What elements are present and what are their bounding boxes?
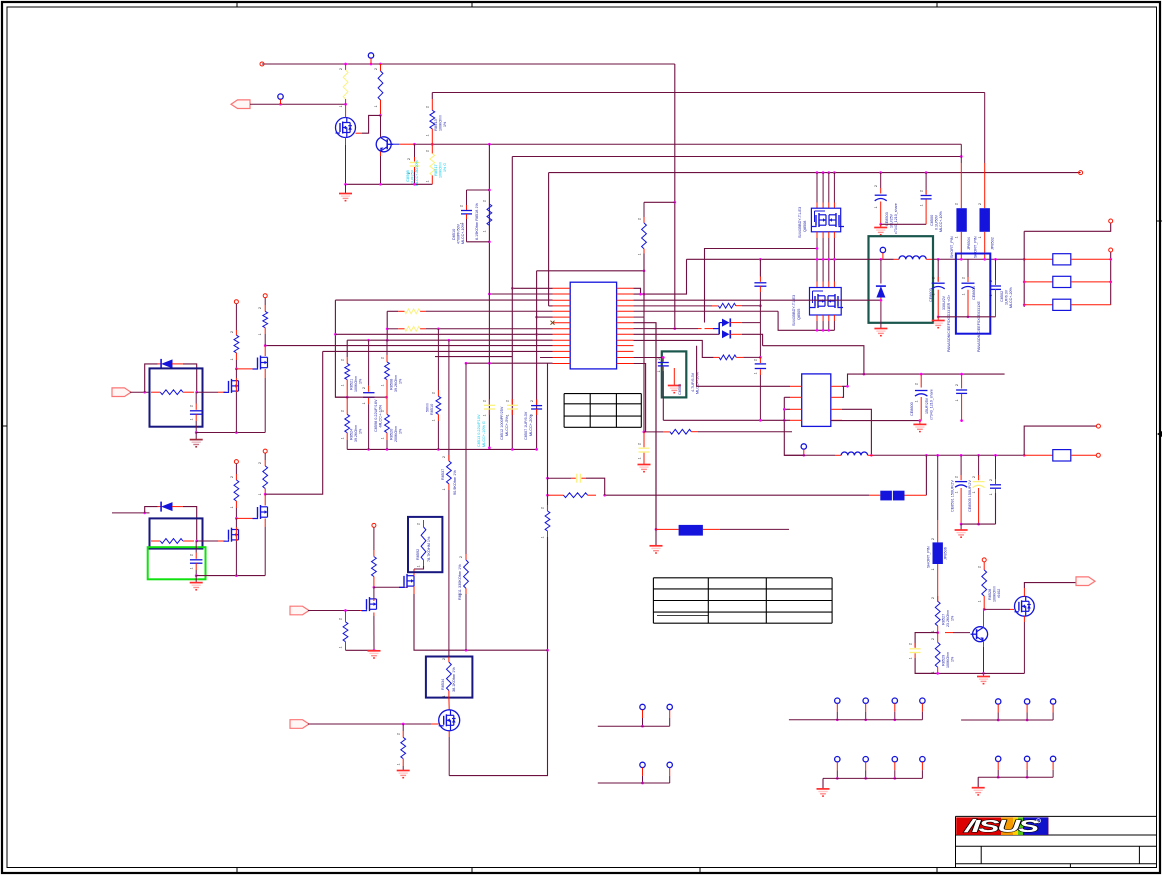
capacitor C8514 yellow xyxy=(638,432,651,472)
label CE8591 xyxy=(951,480,955,512)
resistor R8508 xyxy=(385,340,390,397)
svg-text:MLCC+-5%: MLCC+-5% xyxy=(505,416,509,436)
svg-text:1: 1 xyxy=(258,333,262,335)
svg-text:1: 1 xyxy=(931,630,935,632)
svg-text:1%: 1% xyxy=(443,121,447,127)
ic U8501 pin stubs xyxy=(790,386,842,420)
wire u8501 pin23 left xyxy=(783,397,804,455)
vertical x656 gnd net xyxy=(650,323,663,553)
svg-text:1: 1 xyxy=(397,763,401,765)
svg-text:2: 2 xyxy=(341,359,345,361)
vertical x335.4 xyxy=(334,300,347,397)
svg-text:SHORT_PIN: SHORT_PIN xyxy=(974,236,978,258)
wire Q8502 drain xyxy=(235,369,237,433)
vertical x387.2 xyxy=(386,311,389,341)
resistor R8501 yellow xyxy=(343,64,348,104)
vertical x512.4 net xyxy=(511,157,513,450)
svg-text:1: 1 xyxy=(460,222,464,224)
wire Q8503 vertical xyxy=(264,346,266,433)
green box B4 xyxy=(148,547,206,579)
wire Q8509 source xyxy=(373,613,376,652)
svg-text:1: 1 xyxy=(432,419,436,421)
svg-text:2: 2 xyxy=(955,476,959,478)
wire row340 xyxy=(347,339,552,342)
wire gnd bus y449.4 xyxy=(347,448,538,451)
resistor R8511v xyxy=(464,363,469,650)
svg-text:2: 2 xyxy=(426,150,430,152)
label JP8506 xyxy=(927,546,948,568)
svg-text:2: 2 xyxy=(341,410,345,412)
svg-text:-MLCC+-10%: -MLCC+-10% xyxy=(379,404,383,428)
resistor R8523 xyxy=(718,303,761,308)
svg-text:R8592: R8592 xyxy=(416,549,420,560)
svg-text:C8507 1UF/6.3V: C8507 1UF/6.3V xyxy=(524,411,528,440)
wire net y172.6 xyxy=(549,171,1083,175)
resistor R8530 xyxy=(343,611,374,651)
label R8521 xyxy=(350,376,363,392)
svg-text:2: 2 xyxy=(530,400,534,402)
wire gate Q8515 xyxy=(984,608,1014,610)
svg-text:2: 2 xyxy=(442,456,446,458)
resistor R8526 xyxy=(714,355,761,360)
svg-text:2: 2 xyxy=(638,218,642,220)
svg-text:1: 1 xyxy=(230,506,234,508)
capacitor C8599 xyxy=(956,374,967,421)
wire net y156.5 xyxy=(512,155,962,158)
wire row340 right xyxy=(633,340,713,357)
resistor packs PR8501-3 xyxy=(1024,254,1111,311)
wire row357.5 stub xyxy=(540,357,553,359)
wires Q8508 top pins xyxy=(817,173,834,209)
svg-text:1U/F25V: 1U/F25V xyxy=(411,169,415,184)
svg-text:2: 2 xyxy=(541,507,545,509)
svg-text:R8529: R8529 xyxy=(942,655,946,666)
label R8508 xyxy=(390,375,403,392)
pullup circle R8506 xyxy=(234,300,239,371)
svg-text:C8508: C8508 xyxy=(405,169,410,182)
svg-text:100KOhm: 100KOhm xyxy=(354,376,358,392)
svg-text:2: 2 xyxy=(407,158,411,160)
ground G2 xyxy=(874,224,887,234)
svg-text:90.9KOhm 1%: 90.9KOhm 1% xyxy=(453,470,457,495)
wire gate Q8510 xyxy=(197,540,226,542)
svg-text:Q8508: Q8508 xyxy=(803,221,807,232)
svg-text:2: 2 xyxy=(190,554,194,556)
svg-text:1%: 1% xyxy=(359,428,363,434)
svg-text:1: 1 xyxy=(657,370,661,372)
wire row494 to row351 xyxy=(265,351,323,494)
label R8511v xyxy=(458,564,462,600)
ground G5 maroon xyxy=(190,433,203,447)
header JP5 3pin xyxy=(961,699,1056,722)
label R8528 xyxy=(988,586,1001,602)
wire inductor feed xyxy=(784,454,804,456)
svg-text:1: 1 xyxy=(932,293,936,295)
svg-text:15UF/25V: 15UF/25V xyxy=(925,397,929,414)
svg-text:2: 2 xyxy=(483,200,487,202)
resistor R8518 xyxy=(487,204,492,225)
no-connect circle TP8501 xyxy=(368,53,373,64)
svg-text:r0402: r0402 xyxy=(997,589,1001,598)
resistor R8528 xyxy=(982,558,987,610)
svg-text:2: 2 xyxy=(989,479,993,481)
capacitor C8512 yellow xyxy=(507,399,518,415)
wire row300 right xyxy=(633,299,882,302)
wire row294 xyxy=(488,293,552,296)
svg-text:c7343_1210_share: c7343_1210_share xyxy=(894,203,898,234)
capacitor C8502 xyxy=(990,259,1001,317)
svg-text:4.7UF/6.3V: 4.7UF/6.3V xyxy=(691,372,695,392)
ground G4 xyxy=(932,317,945,328)
capacitor C8507 xyxy=(531,400,542,416)
mosfet Q8513 big xyxy=(439,710,460,731)
pin number labels xyxy=(190,68,994,765)
wire Q8514 emitter xyxy=(982,641,985,675)
wires Q8505 top pins xyxy=(817,259,834,287)
wire row356.6 xyxy=(435,356,512,358)
svg-text:1: 1 xyxy=(920,204,924,206)
svg-text:R8537: R8537 xyxy=(441,469,445,480)
svg-text:1: 1 xyxy=(506,414,510,416)
label R8529 xyxy=(942,652,955,668)
mosfet Q8502 xyxy=(224,379,239,393)
svg-text:R8521: R8521 xyxy=(350,379,354,390)
svg-text:1: 1 xyxy=(442,695,446,697)
capacitor C8515 yellow xyxy=(910,633,938,674)
svg-text:1: 1 xyxy=(442,488,446,490)
port PWRSW xyxy=(231,100,347,109)
wire cap bottom y316.8 xyxy=(938,316,995,318)
capacitor C8508 yellow xyxy=(410,144,420,184)
wire phase y259.3 xyxy=(687,258,900,261)
svg-text:1: 1 xyxy=(530,414,534,416)
diode D8502 xyxy=(145,359,198,394)
vertical x536.6 net xyxy=(536,271,538,450)
label C8507 xyxy=(524,411,533,440)
svg-text:2: 2 xyxy=(380,357,384,359)
svg-text:2: 2 xyxy=(931,538,935,540)
label R8513 xyxy=(433,115,447,131)
mosfet Q8509 xyxy=(362,523,377,611)
svg-text:R8513: R8513 xyxy=(433,118,438,131)
svg-text:1: 1 xyxy=(989,493,993,495)
svg-text:2: 2 xyxy=(962,277,966,279)
wire gnd bus y184.3 xyxy=(344,183,432,186)
svg-text:MLCC+-80/20%: MLCC+-80/20% xyxy=(415,160,419,186)
port PS_ON xyxy=(112,388,150,397)
wire row345.6 xyxy=(264,344,553,347)
vertical x547.5 main xyxy=(547,363,549,511)
wire phase y330.3 xyxy=(778,311,834,331)
resistor R8516 inline xyxy=(449,511,550,776)
wire right rail x1110 xyxy=(1109,248,1113,305)
resistor R8502 xyxy=(378,64,383,117)
pullup circle R8507 xyxy=(263,294,268,346)
resistor R8537 xyxy=(447,340,452,656)
wire y345.7 net xyxy=(763,346,866,376)
svg-text:1UF/6.3V: 1UF/6.3V xyxy=(1005,289,1009,305)
ground G8 xyxy=(913,421,926,432)
svg-text:6.19KOhm R8518 1%: 6.19KOhm R8518 1% xyxy=(475,202,479,240)
svg-text:2: 2 xyxy=(955,384,959,386)
wire row311.3 right xyxy=(633,310,778,312)
port CTRL xyxy=(290,720,439,729)
label R8534 xyxy=(441,667,456,692)
svg-text:2: 2 xyxy=(230,476,234,478)
svg-text:1: 1 xyxy=(483,230,487,232)
svg-text:R8534: R8534 xyxy=(441,679,445,690)
label C8508 xyxy=(405,160,419,186)
svg-text:CE8600: CE8600 xyxy=(910,402,914,416)
wire row397.2 xyxy=(335,396,388,399)
svg-text:2: 2 xyxy=(874,185,878,187)
resistor R8522 xyxy=(642,202,647,253)
wire gate Q8511 link xyxy=(236,517,252,519)
svg-text:1: 1 xyxy=(459,593,463,595)
svg-text:R8508: R8508 xyxy=(390,379,394,390)
svg-text:R8528: R8528 xyxy=(988,589,992,600)
svg-text:1: 1 xyxy=(931,568,935,570)
capacitor D8510 xyxy=(461,190,489,242)
svg-text:1: 1 xyxy=(417,565,421,567)
navy box B6 xyxy=(408,517,442,572)
capacitor C8511 yellow xyxy=(548,474,605,496)
svg-text:1: 1 xyxy=(955,491,959,493)
wire Q8512 source xyxy=(414,586,548,651)
wire row317 xyxy=(535,316,552,319)
svg-text:SHORT_PIN: SHORT_PIN xyxy=(950,236,954,258)
capacitor C8598 xyxy=(363,340,374,449)
svg-text:2: 2 xyxy=(339,618,343,620)
resistor R8503 yellow row311 xyxy=(387,309,552,314)
capacitor C8565 xyxy=(633,356,668,420)
wire Q8513 source xyxy=(448,731,450,776)
svg-text:10U/25V: 10U/25V xyxy=(890,213,894,228)
svg-text:39.2KOhm: 39.2KOhm xyxy=(354,425,358,442)
wire diode low out xyxy=(742,334,763,345)
navy box B3 xyxy=(150,518,203,548)
jumper JP8502 xyxy=(980,93,990,259)
wire Q8515 source xyxy=(1023,616,1025,673)
mosfet Q8515 big xyxy=(1015,596,1035,616)
inductor L8501 xyxy=(804,452,1026,457)
wire row328.8 right xyxy=(633,328,701,330)
ground G11 xyxy=(977,673,990,683)
svg-text:2: 2 xyxy=(754,359,758,361)
capacitor C8500 xyxy=(921,173,932,225)
wire Q8511 vertical xyxy=(264,494,266,575)
svg-text:1: 1 xyxy=(339,646,343,648)
svg-text:2: 2 xyxy=(374,68,378,70)
port EN xyxy=(290,606,366,615)
wire row420 net xyxy=(663,419,790,422)
resistor R8533 xyxy=(397,724,410,778)
svg-text:SHORT_PIN: SHORT_PIN xyxy=(927,546,931,568)
svg-text:78.7KOHM 1%: 78.7KOHM 1% xyxy=(427,536,431,562)
svg-text:50hm: 50hm xyxy=(426,403,430,412)
wire row334 xyxy=(335,333,552,336)
svg-text:Q8505: Q8505 xyxy=(797,309,801,320)
svg-text:1: 1 xyxy=(978,236,982,238)
label CE8604 xyxy=(972,286,981,352)
capacitor CE8603 xyxy=(932,259,945,318)
label C8502 xyxy=(1000,287,1013,308)
resistor R8534 xyxy=(447,657,452,710)
capacitor C8504 xyxy=(190,541,203,577)
svg-text:R8524: R8524 xyxy=(350,429,354,440)
svg-text:2: 2 xyxy=(432,392,436,394)
svg-text:100KOhm: 100KOhm xyxy=(946,652,950,668)
wire gate Q8502 xyxy=(197,391,226,393)
svg-text:2: 2 xyxy=(978,566,982,568)
capacitor CE8505 yellow xyxy=(973,455,985,525)
wire VIN top rail y64 xyxy=(260,62,675,66)
label C8513 xyxy=(477,414,486,447)
test point circle xyxy=(278,94,283,104)
svg-text:2: 2 xyxy=(460,205,464,207)
transistor Q8505 SI4435 package xyxy=(810,288,844,316)
svg-text:PANASONIC/EEFSX0E0331XE: PANASONIC/EEFSX0E0331XE xyxy=(977,301,981,352)
wire y270.8 link xyxy=(537,269,646,272)
label C8500 xyxy=(930,211,943,232)
svg-text:1%: 1% xyxy=(951,615,955,621)
wire row334 right xyxy=(633,333,719,335)
svg-text:/ISUS: /ISUS xyxy=(963,816,1040,836)
transistor Q8508 SI4435 package xyxy=(811,208,844,232)
svg-text:1% G: 1% G xyxy=(443,163,447,172)
wire Q8515 drain up xyxy=(1024,583,1077,597)
svg-text:1: 1 xyxy=(190,418,194,420)
svg-text:2: 2 xyxy=(978,203,982,205)
jumper JP8504 xyxy=(956,144,966,259)
svg-text:1: 1 xyxy=(989,294,993,296)
ground G3 xyxy=(874,329,887,336)
resistor R8512 xyxy=(548,493,597,498)
svg-text:1: 1 xyxy=(955,399,959,401)
svg-text:MLCC+-10% G: MLCC+-10% G xyxy=(482,421,486,447)
svg-text:2: 2 xyxy=(638,443,642,445)
svg-text:100KOhm: 100KOhm xyxy=(993,586,997,602)
wire Q8501 drain link xyxy=(356,115,381,133)
svg-text:R8527: R8527 xyxy=(942,614,946,625)
resistor R8504 yellow row328.8 xyxy=(387,326,552,331)
svg-text:1: 1 xyxy=(341,437,345,439)
svg-text:0.1U/50V: 0.1U/50V xyxy=(935,214,939,230)
test point circle in B1 xyxy=(880,247,885,259)
svg-text:R8520: R8520 xyxy=(390,429,394,440)
wire row351.4 xyxy=(323,350,553,352)
wire vin right top xyxy=(1024,219,1113,231)
capacitor CE8591 xyxy=(955,455,967,525)
resistor R8513 xyxy=(430,93,435,145)
ASUS logo xyxy=(956,816,1048,836)
label Q8508 xyxy=(798,207,807,238)
svg-text:JP8506: JP8506 xyxy=(944,547,948,560)
svg-text:1: 1 xyxy=(483,414,487,416)
mosfet Q8511 xyxy=(253,505,268,519)
inductor L8500 xyxy=(899,256,1026,261)
svg-text:2: 2 xyxy=(258,307,262,309)
label R8527 xyxy=(942,610,955,627)
ic U8500 right pin stubs xyxy=(617,288,634,363)
vertical x644 net xyxy=(643,254,646,434)
wire SUS in xyxy=(112,512,150,515)
svg-text:4700PF/50V: 4700PF/50V xyxy=(457,223,461,244)
svg-text:1: 1 xyxy=(426,134,430,136)
header JP4 4pin xyxy=(817,757,926,797)
svg-text:1: 1 xyxy=(972,491,976,493)
wire bus1 y432.5 xyxy=(196,431,265,434)
teal highlight box B5 xyxy=(662,351,687,397)
svg-text:2: 2 xyxy=(915,383,919,385)
wire net y144 collector rail xyxy=(391,143,961,146)
vertical x760.4 net xyxy=(754,259,766,358)
svg-text:D8510: D8510 xyxy=(452,229,456,240)
svg-text:1: 1 xyxy=(230,358,234,360)
capacitor CE8604 xyxy=(962,259,975,318)
blue box CE8604 xyxy=(956,254,990,334)
svg-text:1: 1 xyxy=(638,253,642,255)
svg-text:2: 2 xyxy=(442,658,446,660)
mosfet Q8503 xyxy=(253,356,268,370)
wire gate link row587 xyxy=(374,586,408,588)
wire phase link up xyxy=(705,247,819,322)
svg-text:100KOhm: 100KOhm xyxy=(439,115,443,131)
jumper JP8506 xyxy=(933,455,943,601)
wire gate Q8503 link xyxy=(236,368,252,370)
capacitor C8513 yellow xyxy=(484,399,495,415)
ground G9 xyxy=(368,651,381,658)
wire row294 right xyxy=(633,259,686,295)
svg-text:200KOhm: 200KOhm xyxy=(394,426,398,442)
wire cap bottom y524.1 xyxy=(961,523,995,525)
svg-text:2: 2 xyxy=(931,597,935,599)
label Q8505 xyxy=(792,295,801,326)
resistor R8520 xyxy=(385,397,390,449)
ic U8500 left pin stubs xyxy=(551,288,571,363)
capacitor C8501 xyxy=(190,392,203,434)
svg-text:1: 1 xyxy=(962,293,966,295)
svg-text:2: 2 xyxy=(931,638,935,640)
label CE8600 xyxy=(910,389,934,420)
port VOUT arrow xyxy=(1076,577,1095,586)
svg-text:2: 2 xyxy=(657,358,661,360)
svg-text:1: 1 xyxy=(909,657,913,659)
label R8537 xyxy=(441,469,457,495)
table T2 xyxy=(653,578,832,623)
vertical net x674.8 xyxy=(673,64,676,330)
resistor R8529 xyxy=(935,633,940,674)
ground G1 xyxy=(339,184,352,200)
svg-text:C8565: C8565 xyxy=(678,384,682,395)
wire u8501 pin4 right xyxy=(831,419,963,422)
dual diode D8501 xyxy=(705,318,742,338)
svg-text:PANASONIC/EEFSX0D331ER <G>: PANASONIC/EEFSX0D331ER <G> xyxy=(947,295,951,352)
svg-text:MLCC+-20%: MLCC+-20% xyxy=(1009,287,1013,308)
svg-text:1%: 1% xyxy=(359,378,363,384)
svg-text:39.2KOhm: 39.2KOhm xyxy=(394,375,398,392)
label D8510 xyxy=(452,223,465,244)
label R8518 xyxy=(475,202,479,240)
header JP1 2pin xyxy=(598,704,673,727)
svg-text:c7343_1210_share: c7343_1210_share xyxy=(930,389,934,420)
svg-text:SI4435BDY-T1-E3: SI4435BDY-T1-E3 xyxy=(792,295,796,326)
transistor Q8514 NPN xyxy=(945,627,988,642)
wire row322.7 right xyxy=(633,323,657,531)
label CE8503 xyxy=(885,203,898,234)
capacitor CE8503 xyxy=(875,173,887,226)
svg-text:1: 1 xyxy=(915,400,919,402)
